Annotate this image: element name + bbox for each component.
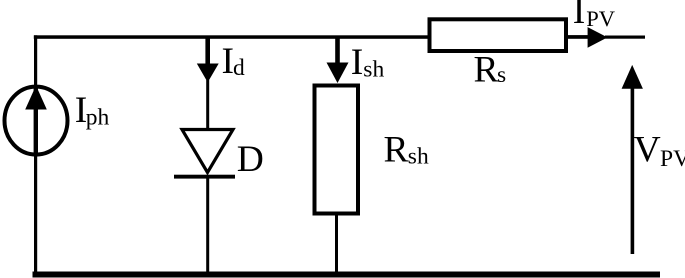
svg-text:I: I [351, 42, 364, 83]
svg-text:D: D [237, 139, 264, 180]
svg-text:I: I [573, 0, 586, 32]
voltage arrow VPV [622, 65, 643, 254]
label D [237, 139, 264, 180]
svg-text:PV: PV [586, 6, 615, 31]
wire shunt branch bottom [335, 214, 338, 274]
resistor Rs [430, 19, 567, 51]
wire top rail left segment [34, 35, 430, 39]
label Rs [474, 50, 507, 91]
label Id [222, 41, 246, 82]
label Ish [351, 42, 385, 83]
wire bottom rail [33, 272, 661, 278]
svg-text:d: d [233, 55, 245, 81]
current arrow Id [197, 37, 219, 82]
label VPV [634, 130, 685, 173]
svg-text:s: s [497, 62, 506, 88]
svg-text:sh: sh [363, 57, 384, 83]
svg-text:PV: PV [660, 146, 685, 172]
resistor Rsh [315, 86, 359, 214]
svg-text:ph: ph [86, 105, 110, 131]
label Iph [75, 90, 110, 131]
label IPV [573, 0, 615, 32]
current arrow Ish [327, 37, 349, 83]
current source U1 Iph circle [5, 86, 68, 157]
label Rsh [384, 130, 429, 171]
svg-text:V: V [634, 130, 661, 171]
wire output with arrow IPV [566, 27, 645, 48]
svg-text:R: R [384, 130, 409, 171]
svg-text:R: R [474, 50, 499, 91]
wire diode branch [206, 80, 209, 274]
diode D [174, 130, 235, 179]
svg-text:sh: sh [408, 144, 429, 170]
wire left vertical branch [34, 35, 37, 276]
